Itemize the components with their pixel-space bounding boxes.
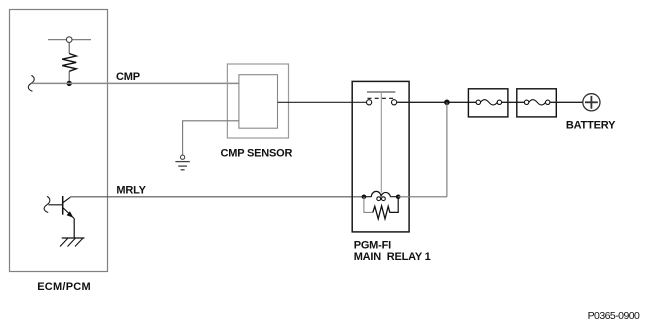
transistor Q emitter stroke (63, 208, 74, 219)
relay coil junction dot right (396, 195, 401, 200)
relay parallel resistor left leg (364, 197, 373, 213)
transistor Q emitter arrowhead (67, 211, 74, 218)
svg-text:CMP: CMP (116, 71, 140, 83)
CMP sensor outer box (227, 64, 288, 138)
relay coil hump 2 (381, 192, 390, 196)
fuse 2 element wave (529, 100, 546, 105)
wire MRLY (collector to relay coil) (70, 196, 364, 198)
svg-text:BATTERY: BATTERY (566, 120, 616, 132)
wire transistor base (49, 204, 63, 206)
wire emitter to ground (73, 219, 75, 239)
svg-text:MRLY: MRLY (116, 184, 146, 196)
wire sensor ground (183, 121, 239, 155)
wire sensor output to relay contact (278, 101, 367, 103)
fuse 1 terminal circle right (497, 100, 501, 104)
transistor Q base bar (62, 196, 64, 215)
wire junction feedback vertical (446, 102, 448, 197)
relay contact dashed line (368, 97, 395, 99)
svg-text:ECM/PCM: ECM/PCM (37, 281, 91, 293)
fuse 2 terminal circle left (524, 100, 528, 104)
wire break symbol (transistor base) (44, 196, 50, 212)
relay contact armature bar (367, 91, 395, 93)
relay parallel resistor zigzag (373, 206, 390, 219)
resistor R (pull-up) (62, 54, 76, 72)
wire fuse 1 to fuse 2 (502, 101, 525, 103)
node junction dot on CMP line (67, 81, 72, 86)
earth ground bar 2 (178, 165, 187, 167)
wire resistor to CMP node (68, 71, 70, 83)
relay coil loop 2 (382, 197, 386, 201)
wire break symbol (CMP left) (28, 75, 34, 91)
fuse 1 box (468, 89, 508, 117)
relay contact terminal circle right (392, 100, 397, 105)
fuse 2 terminal circle right (546, 100, 550, 104)
chassis ground hatch 3 (75, 238, 83, 247)
earth ground bar 3 (181, 169, 185, 171)
relay parallel resistor right leg (390, 197, 399, 213)
PGM-FI main relay box (352, 81, 409, 232)
wire CMP (ECM to CMP sensor) (32, 82, 239, 84)
fuse 1 terminal circle left (476, 100, 480, 104)
battery plus horizontal (585, 101, 598, 103)
svg-text:CMP SENSOR: CMP SENSOR (221, 147, 293, 159)
wire supply to resistor (68, 42, 70, 53)
node junction dot (relay output) (444, 100, 450, 106)
wire coil stub left (364, 196, 372, 198)
svg-text:MAIN RELAY 1: MAIN RELAY 1 (354, 251, 431, 263)
battery plus vertical (590, 96, 592, 109)
transistor Q collector stroke (63, 197, 70, 203)
relay coil junction dot left (362, 195, 367, 200)
wire feedback to relay coil (398, 196, 447, 198)
relay coil hump 1 (371, 191, 381, 196)
chassis ground hatch 2 (68, 238, 76, 247)
internal supply node circle (66, 37, 72, 43)
chassis ground hatch 1 (60, 238, 68, 247)
fuse 1 element wave (481, 100, 498, 105)
relay actuator link line (380, 92, 382, 193)
relay coil loop 1 (377, 197, 381, 201)
wire fuse 2 to battery (550, 101, 583, 103)
internal supply node bar (48, 39, 91, 41)
wire coil stub right (390, 196, 398, 198)
svg-text:P0365-0900: P0365-0900 (588, 310, 640, 322)
wire relay contact to fuse 1 (397, 101, 476, 103)
sensor ground circle (181, 155, 185, 159)
chassis ground (ECM) bar (62, 237, 85, 239)
battery terminal circle (583, 94, 600, 111)
ECM/PCM box (10, 10, 108, 272)
earth ground bar 1 (175, 161, 189, 163)
relay contact terminal circle left (367, 100, 372, 105)
svg-text:PGM-FI: PGM-FI (354, 240, 391, 252)
fuse 2 box (517, 89, 557, 117)
CMP sensor inner box (239, 75, 278, 129)
